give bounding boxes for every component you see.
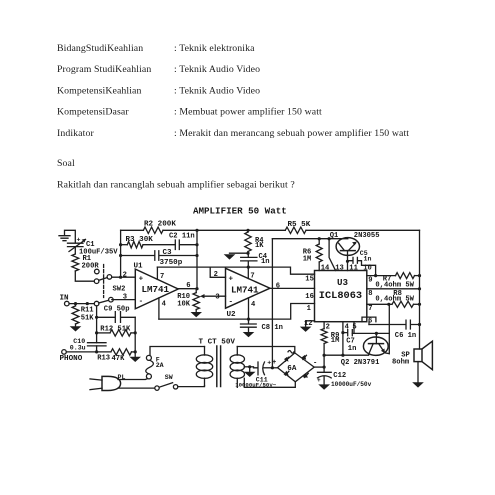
svg-text:BidangStudiKeahlian: BidangStudiKeahlian (57, 43, 143, 54)
pin 7 U1 (156, 267, 158, 279)
wire rail U1 pin7 to U3 pin15 (157, 267, 314, 274)
capacitor C3 (121, 249, 197, 267)
svg-text:+: + (139, 276, 144, 284)
svg-text:1K: 1K (255, 242, 264, 250)
svg-text:R5 5K: R5 5K (288, 221, 311, 229)
resistor R1 (72, 254, 99, 271)
wire negative rail (323, 354, 369, 357)
pin 7 line with resistor R8 (367, 301, 421, 313)
svg-text:R13: R13 (97, 354, 110, 362)
capacitor C1 (68, 237, 119, 257)
svg-text:LM741: LM741 (231, 285, 259, 296)
svg-text:2: 2 (326, 323, 330, 331)
document text block (57, 43, 409, 190)
pin 4 U2 (248, 298, 250, 319)
op-amp U2 (226, 268, 271, 319)
ground under vertical B (129, 352, 141, 362)
svg-text:PHONO: PHONO (60, 355, 83, 363)
plug PL (90, 374, 125, 391)
svg-text:C3: C3 (163, 249, 173, 257)
input terminal IN (60, 294, 95, 306)
wire feedback vertical right (196, 230, 198, 288)
node rail B junctions (318, 237, 331, 240)
svg-text:1n: 1n (364, 256, 372, 263)
svg-text:10000uF/50v~: 10000uF/50v~ (235, 382, 277, 389)
ground pin 12 U3 (300, 320, 315, 332)
svg-text:SW: SW (165, 374, 173, 381)
transformer T CT 50V (196, 339, 244, 388)
capacitor C6 line (369, 320, 421, 340)
wire rail B to pin 13 (329, 239, 335, 271)
svg-text:14: 14 (321, 264, 330, 272)
SW2 dashed link (103, 265, 105, 298)
svg-text:-: - (313, 359, 317, 367)
wire vertical B (134, 317, 136, 352)
svg-text:C12: C12 (333, 372, 346, 380)
pin 8 line (367, 287, 421, 303)
transformer centre tap with ground (244, 365, 256, 377)
speaker SP (392, 341, 432, 387)
svg-text:-: - (229, 298, 234, 306)
top pin labels U3 (321, 264, 372, 272)
svg-text:10K: 10K (177, 300, 191, 308)
wire bridge right to C12 node (314, 366, 324, 368)
svg-text:1: 1 (307, 305, 311, 313)
pin 4 wire (341, 322, 349, 356)
transistor Q1 (330, 232, 380, 271)
transistor Q2 (341, 333, 388, 366)
svg-text:1n: 1n (261, 258, 270, 266)
pin 5 wire (352, 322, 356, 334)
node rail A / C2 / C3 junctions (195, 229, 198, 291)
svg-text:Q1: Q1 (330, 232, 339, 240)
wire rail A top (121, 229, 420, 231)
svg-text:8: 8 (368, 290, 372, 298)
svg-text:13: 13 (335, 264, 344, 272)
wire bridge bottom to transformer (244, 378, 295, 387)
node supply vertical to bridge + (271, 366, 274, 369)
wire rail B (272, 238, 347, 240)
svg-text:47K: 47K (112, 355, 126, 363)
bridge rectifier 6A (272, 351, 317, 382)
svg-text:C2 11n: C2 11n (169, 232, 195, 240)
svg-text:2N3055: 2N3055 (354, 232, 380, 240)
svg-text:15: 15 (305, 276, 314, 284)
switch SW (155, 374, 178, 391)
svg-text:2: 2 (214, 271, 218, 279)
resistor R5 (285, 221, 310, 234)
node C3 line left (119, 254, 122, 257)
wire left feedback vertical (120, 230, 122, 277)
svg-text:3: 3 (215, 293, 219, 301)
pin 9 line with resistor R7 (367, 273, 421, 290)
capacitor C12 (317, 355, 372, 390)
svg-text:: Merakit dan merancang sebuah: : Merakit dan merancang sebuah power amp… (174, 128, 409, 139)
svg-text:5: 5 (352, 323, 356, 331)
wire pin7-line branch down to C6 line (386, 304, 390, 353)
pin 3 U1 wire (112, 299, 136, 301)
node C4 to rail (247, 266, 250, 269)
capacitor C7 (343, 330, 356, 353)
capacitor C4 (241, 253, 270, 267)
svg-text:-: - (139, 298, 144, 306)
svg-text:6: 6 (276, 282, 280, 290)
fuse F 2A (118, 347, 205, 380)
svg-text:1M: 1M (331, 337, 340, 345)
svg-text:2A: 2A (156, 362, 164, 369)
IC U3 box (315, 271, 367, 322)
svg-text:6: 6 (186, 282, 190, 290)
pin 16 wire from U2 output (270, 287, 315, 289)
ground under R10 (191, 312, 203, 317)
svg-text:+: + (77, 237, 81, 244)
svg-text:0.3u: 0.3u (70, 345, 86, 352)
svg-text:4: 4 (162, 301, 167, 309)
svg-text:LM741: LM741 (142, 284, 170, 295)
resistor R3 (121, 236, 176, 248)
svg-text:7: 7 (368, 305, 372, 313)
potentiometer R10 (177, 289, 225, 312)
svg-text:U2: U2 (227, 311, 237, 319)
svg-text:3750p: 3750p (160, 259, 183, 267)
svg-text:7: 7 (160, 273, 164, 281)
svg-text:1M: 1M (303, 256, 312, 264)
svg-text:6A: 6A (287, 365, 297, 373)
svg-text:U1: U1 (134, 262, 144, 270)
pin 4 U1 (158, 298, 160, 319)
svg-text:Soal: Soal (57, 158, 75, 169)
capacitor C2 (169, 232, 197, 249)
op-amp U1 (134, 262, 179, 308)
wire C7/pin5 to Q2 base (352, 332, 389, 334)
svg-text:KompetensiDasar: KompetensiDasar (57, 107, 129, 118)
svg-text:2: 2 (123, 271, 127, 279)
pin 6 notch U3 (362, 317, 376, 325)
svg-text:8ohm: 8ohm (392, 359, 410, 367)
wire vertical A with C10 (96, 306, 98, 343)
svg-text:11: 11 (349, 264, 358, 272)
svg-text:1n: 1n (348, 345, 357, 353)
svg-text:: Teknik Audio Video: : Teknik Audio Video (174, 85, 260, 96)
svg-text:KompetensiKeahlian: KompetensiKeahlian (57, 85, 142, 96)
svg-text:U3: U3 (337, 277, 349, 288)
capacitor C10 (70, 338, 106, 352)
node pin2 junction (119, 276, 122, 279)
svg-text:Q2 2N3791: Q2 2N3791 (341, 359, 380, 367)
svg-text:51K: 51K (81, 315, 95, 323)
svg-text:+: + (317, 377, 321, 384)
svg-text:7: 7 (250, 273, 254, 281)
svg-text:R11: R11 (81, 307, 94, 315)
svg-text:16: 16 (305, 293, 314, 301)
capacitor C5 (348, 250, 376, 276)
pin 7 U2 (247, 267, 249, 278)
phono terminal (60, 350, 83, 363)
svg-text:+: + (267, 359, 271, 366)
svg-text:C6 1n: C6 1n (395, 332, 416, 340)
svg-text:AMPLIFIER 50 Watt: AMPLIFIER 50 Watt (193, 206, 287, 217)
pin 2 wire with resistor R9 (321, 322, 339, 356)
wire bottom rail (159, 304, 315, 320)
svg-text:ICL8063: ICL8063 (319, 290, 362, 302)
svg-text:: Teknik Audio Video: : Teknik Audio Video (174, 64, 260, 75)
svg-text:Program StudiKeahlian: Program StudiKeahlian (57, 64, 151, 75)
capacitor C11 (235, 359, 277, 388)
svg-text:9: 9 (368, 277, 372, 285)
svg-text:SW2: SW2 (113, 286, 126, 294)
resistor R2 (143, 221, 176, 234)
svg-text:+: + (272, 359, 276, 367)
svg-text:3: 3 (123, 293, 127, 301)
svg-text:Indikator: Indikator (57, 128, 94, 139)
svg-text:: Membuat power amplifier 150: : Membuat power amplifier 150 watt (174, 107, 322, 118)
capacitor C9 (95, 305, 135, 322)
switch SW2 lower contacts (94, 297, 113, 306)
wire right rail (419, 230, 421, 349)
svg-text:R2 200K: R2 200K (144, 221, 176, 229)
resistor R6 (303, 239, 323, 271)
resistor R12 (95, 326, 137, 336)
svg-text:4: 4 (251, 301, 256, 309)
svg-text:PL: PL (118, 374, 126, 381)
svg-text:C9 50p: C9 50p (104, 305, 130, 313)
svg-text:: Teknik elektronika: : Teknik elektronika (174, 43, 255, 54)
svg-text:R3 30K: R3 30K (126, 236, 154, 244)
wire switch to transformer primary (178, 386, 205, 387)
wire supply vertical (rail B to bridge +) (271, 239, 273, 368)
ground at R4/C4 node (224, 253, 248, 259)
pin 6 U1 output wire (178, 288, 197, 290)
node R3 line left (119, 243, 122, 246)
svg-text:R12 51K: R12 51K (100, 326, 131, 334)
ground (top-left, bar style) (59, 230, 75, 242)
resistor R13 (66, 349, 136, 363)
svg-text:Rakitlah dan rancanglah sebuah: Rakitlah dan rancanglah sebuah amplifier… (57, 179, 295, 190)
svg-text:12: 12 (304, 320, 313, 328)
svg-text:10: 10 (363, 264, 372, 272)
wire U2 pin2 elbow (210, 267, 225, 277)
resistor R4 (245, 229, 264, 255)
node Q2 base (375, 332, 378, 335)
switch SW2 upper contacts (94, 269, 111, 283)
wire R1 to switch contact (75, 271, 94, 281)
wire SW2 pivot to U1 pin2 (112, 276, 136, 278)
wire bridge top to transformer (237, 347, 294, 353)
resistor R11 (70, 304, 95, 332)
svg-text:+: + (229, 276, 234, 284)
svg-text:10000uF/50v: 10000uF/50v (331, 381, 372, 388)
capacitor C8 (241, 318, 283, 338)
wire plug bottom to switch (118, 387, 155, 389)
